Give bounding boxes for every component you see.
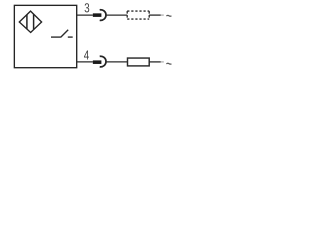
dashed load rectangle bottom edge [127,18,149,20]
wire pin4 to load [106,61,127,63]
dashed load rectangle left edge [126,11,128,19]
inductive proximity sensor symbol: rhombus [19,11,41,32]
pin label 4 [84,51,89,60]
AC tilde pin4 [166,62,171,65]
switch lever [61,30,68,37]
pin3 socket arc [100,10,106,21]
solid load rectangle [128,58,150,66]
wire pin3 to source [149,14,161,16]
switch fixed contact dash [68,36,73,38]
wire pin4 from box [77,61,93,63]
dashed load rectangle right edge [148,11,150,19]
dashed load rectangle top edge [127,10,149,12]
rhombus inner bar right [33,14,35,29]
pin label 3 [85,3,90,12]
wire pin4 faded end [161,61,164,63]
wire pin3 faded end [161,14,164,16]
wire pin4 to source [149,61,161,63]
sensor body box [14,5,76,67]
pin4 plug bar [93,60,102,64]
wire pin3 to load [106,14,127,16]
switch contact lead wire [51,36,61,38]
rhombus inner bar left [26,15,28,29]
wire pin3 from box [77,14,93,16]
AC tilde pin3 [166,14,171,17]
pin3 plug bar [93,13,102,17]
pin4 socket arc [100,56,106,67]
